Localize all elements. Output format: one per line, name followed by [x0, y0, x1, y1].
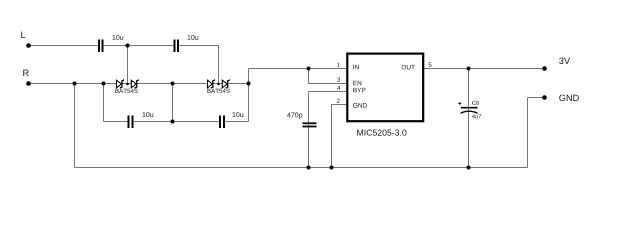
junction rectified node — [247, 82, 251, 86]
capacitor C4 470p plates — [303, 122, 317, 124]
capacitor C6 4u7 polarized — [458, 102, 477, 113]
pin 2 — [337, 99, 340, 103]
pin name EN — [353, 81, 361, 85]
label GND — [559, 95, 579, 102]
wire to C3 left — [104, 121, 128, 123]
label C6 4u7 — [472, 114, 481, 118]
wire C5 right to rectified node — [225, 121, 249, 123]
wire mid junction down — [172, 84, 174, 122]
capacitor C1 10u plates — [98, 40, 100, 53]
capacitor C2 10u plates — [174, 40, 176, 53]
pin name BYP — [353, 88, 365, 92]
pin 1 — [337, 63, 340, 67]
node A junction — [126, 44, 130, 48]
junction mid diodes — [171, 82, 175, 86]
label C2 10u — [188, 35, 199, 40]
wire BYP — [309, 91, 348, 93]
wire R rail — [29, 83, 249, 85]
junction IN — [307, 67, 311, 71]
wire OUT — [423, 68, 545, 70]
capacitor C5 10u plates — [219, 116, 221, 129]
wire IN — [249, 68, 348, 70]
junction R rail left — [73, 82, 77, 86]
label C3 10u — [143, 112, 154, 117]
label 3V — [559, 58, 570, 65]
label C6 — [472, 101, 479, 105]
label R — [23, 70, 28, 76]
pin name IN — [353, 65, 358, 69]
wire rail up to GND terminal — [527, 98, 529, 168]
terminal 3V dot — [542, 66, 547, 71]
wire R rail down to C3 — [103, 84, 105, 122]
terminal L dot — [26, 43, 31, 48]
diode pair D1 BAT54S — [117, 79, 139, 89]
wire left drop from R rail — [74, 84, 76, 168]
wire IN dot down to EN — [308, 69, 310, 84]
label C5 10u — [233, 112, 244, 117]
terminal GND dot — [542, 95, 547, 100]
op-amp U1 MIC5205 box — [347, 54, 423, 122]
wire rectified node vertical — [248, 69, 250, 122]
pin 4 — [337, 86, 340, 90]
wire bottom rail — [75, 167, 528, 169]
label C4 470p — [287, 112, 302, 118]
junction rail C4 — [307, 166, 311, 170]
wire C3 to C5 bottom row — [134, 121, 220, 123]
diode pair D2 BAT54S — [208, 79, 230, 89]
label D1 BAT54S — [115, 89, 137, 93]
junction R rail C3 — [102, 82, 106, 86]
label U1 MIC5205-3.0 — [357, 130, 406, 136]
wire corner down to D2 center — [218, 46, 220, 84]
terminal R dot — [26, 81, 31, 86]
label L — [21, 32, 25, 38]
label C1 10u — [113, 35, 124, 40]
wire GND terminal — [528, 97, 545, 99]
junction rail C6 — [467, 166, 471, 170]
pin 5 — [429, 63, 432, 67]
wire node A down to D1 center — [127, 46, 129, 84]
wire BYP down through C4 to rail — [308, 92, 310, 168]
label D2 BAT54S — [207, 89, 229, 93]
capacitor C3 10u plates — [128, 116, 130, 129]
pin name GND — [353, 103, 367, 108]
wire C2 to corner — [179, 45, 219, 47]
wire L terminal to C1 — [29, 45, 99, 47]
junction OUT — [467, 67, 471, 71]
junction bottom C3-C5 — [171, 120, 175, 124]
junction rail GND pin — [330, 166, 334, 170]
wire GND pin to rail — [332, 105, 348, 168]
wire EN — [309, 83, 348, 85]
pin name OUT — [402, 65, 415, 70]
wire node A (C1 to C2) — [104, 45, 174, 47]
wire OUT down through C6 to rail — [468, 69, 470, 168]
pin 3 — [337, 77, 340, 81]
